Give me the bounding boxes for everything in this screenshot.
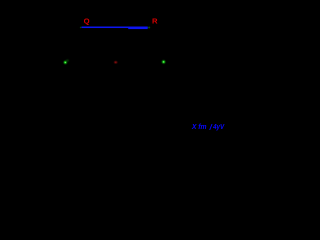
svg-text:/: / <box>209 123 213 132</box>
svg-text:Q: Q <box>84 17 90 26</box>
svg-text:fm: fm <box>198 124 206 131</box>
svg-text:R: R <box>152 17 158 26</box>
svg-text:4yV: 4yV <box>212 124 225 131</box>
svg-text:X: X <box>191 124 197 131</box>
